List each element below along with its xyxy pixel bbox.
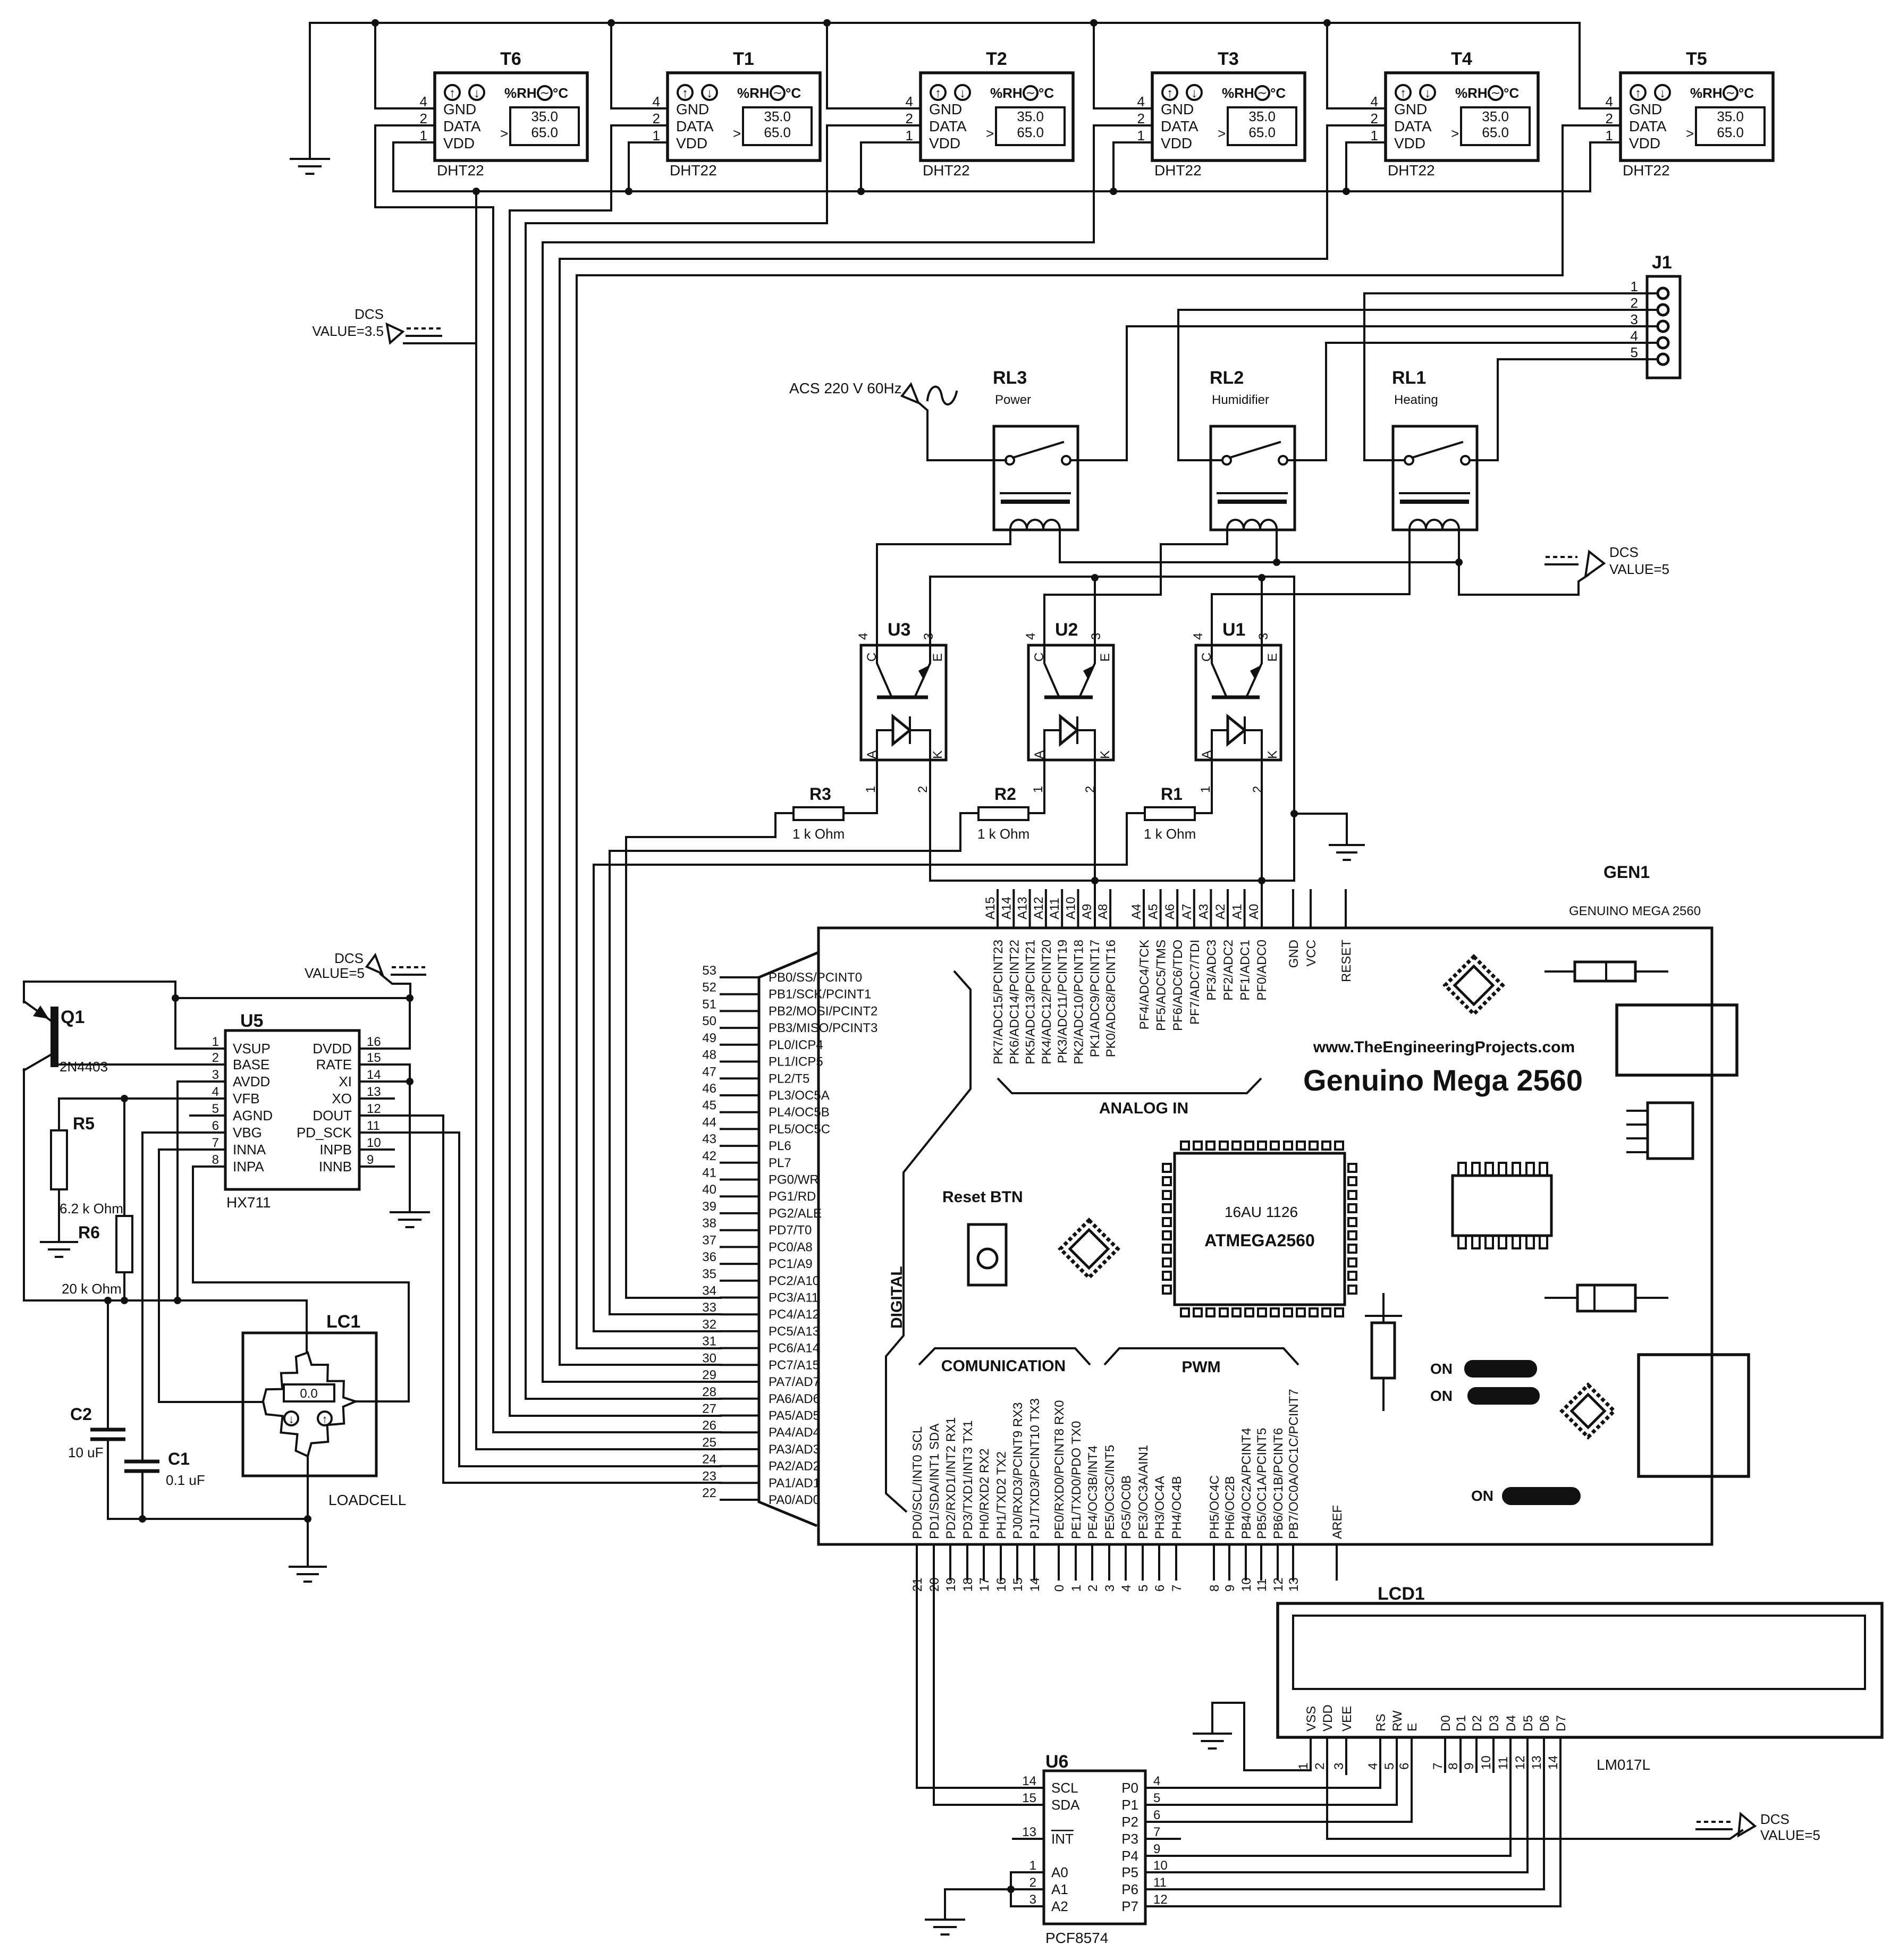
- svg-text:20 k Ohm: 20 k Ohm: [62, 1281, 122, 1297]
- svg-text:U3: U3: [888, 620, 910, 640]
- optocoupler U1: [1191, 620, 1281, 793]
- svg-text:U1: U1: [1222, 620, 1245, 640]
- svg-text:PL7: PL7: [769, 1156, 791, 1170]
- wire T5 VDD: [1590, 142, 1621, 191]
- component capacitor vertical: [1366, 1294, 1401, 1410]
- relay RL3 Power: [993, 368, 1078, 530]
- svg-text:14: 14: [1022, 1774, 1036, 1788]
- svg-text:PK4/ADC12/PCINT20: PK4/ADC12/PCINT20: [1040, 940, 1054, 1065]
- svg-text:37: 37: [702, 1233, 716, 1247]
- svg-text:1: 1: [864, 786, 878, 793]
- svg-text:INPB: INPB: [319, 1142, 352, 1158]
- svg-text:2: 2: [1606, 111, 1613, 126]
- svg-text:0.0: 0.0: [300, 1387, 317, 1401]
- svg-text:°C: °C: [1270, 85, 1286, 101]
- MCU bottom pin names: [910, 1389, 1345, 1539]
- svg-text:2N4403: 2N4403: [60, 1059, 108, 1075]
- svg-text:3: 3: [1631, 311, 1638, 327]
- sensor LC1 LOADCELL bridge: [243, 1312, 406, 1508]
- svg-text:PK3/ADC11/PCINT19: PK3/ADC11/PCINT19: [1056, 940, 1070, 1063]
- svg-text:R1: R1: [1161, 784, 1183, 804]
- svg-text:↑: ↑: [1400, 86, 1406, 100]
- svg-text:Reset BTN: Reset BTN: [942, 1188, 1023, 1206]
- wire T2 DATA: [526, 125, 921, 223]
- svg-text:15: 15: [1022, 1791, 1036, 1805]
- sensor T1 DHT22: [653, 49, 820, 179]
- svg-text:Genuino Mega 2560: Genuino Mega 2560: [1303, 1063, 1583, 1097]
- svg-text:0: 0: [1052, 1585, 1067, 1592]
- svg-text:U2: U2: [1055, 620, 1078, 640]
- wire J1 pin3 to RL3: [1127, 326, 1658, 460]
- svg-text:INNB: INNB: [319, 1159, 352, 1175]
- svg-text:2: 2: [1086, 1585, 1100, 1592]
- svg-text:D1: D1: [1454, 1715, 1468, 1731]
- svg-text:Q1: Q1: [61, 1007, 85, 1027]
- svg-text:PE1/TXD0/PDO TX0: PE1/TXD0/PDO TX0: [1069, 1421, 1084, 1539]
- svg-text:PF1/ADC1: PF1/ADC1: [1238, 940, 1253, 1001]
- svg-text:R3: R3: [809, 784, 831, 804]
- wire LCD D0-D3 stubs: [1445, 1737, 1493, 1772]
- svg-text:25: 25: [702, 1435, 716, 1450]
- wire U6 INT stub: [1013, 1838, 1044, 1840]
- wire R5 leads: [58, 1099, 60, 1242]
- wire T5 GND: [1580, 23, 1621, 108]
- chip SOIC16: [1453, 1163, 1551, 1248]
- svg-text:PG2/ALE: PG2/ALE: [769, 1206, 822, 1221]
- svg-text:Heating: Heating: [1394, 393, 1438, 407]
- svg-text:12: 12: [367, 1102, 381, 1116]
- svg-text:E: E: [1405, 1723, 1420, 1731]
- svg-text:3: 3: [1089, 633, 1103, 640]
- svg-text:∼: ∼: [1026, 86, 1035, 99]
- svg-text:PD0/SCL/INT0 SCL: PD0/SCL/INT0 SCL: [910, 1426, 925, 1539]
- wire LCD D5 to U6 P5: [1145, 1737, 1527, 1872]
- svg-text:ATMEGA2560: ATMEGA2560: [1204, 1231, 1314, 1250]
- svg-text:VALUE=5: VALUE=5: [1760, 1827, 1820, 1843]
- connector J1: [1631, 252, 1680, 378]
- svg-text:PL6: PL6: [769, 1139, 791, 1153]
- svg-text:D7: D7: [1554, 1715, 1568, 1731]
- svg-text:VALUE=3.5: VALUE=3.5: [312, 323, 384, 339]
- svg-text:4: 4: [653, 94, 660, 109]
- svg-text:PF6/ADC6/TDO: PF6/ADC6/TDO: [1171, 940, 1185, 1031]
- svg-text:7: 7: [212, 1136, 219, 1150]
- svg-text:A7: A7: [1180, 904, 1194, 919]
- svg-text:T1: T1: [733, 49, 754, 69]
- svg-text:10: 10: [1479, 1755, 1493, 1770]
- svg-text:2: 2: [906, 111, 913, 126]
- ground U6 address pins: [926, 1920, 964, 1934]
- svg-text:VDD: VDD: [1161, 135, 1192, 151]
- svg-text:PA1/AD1: PA1/AD1: [769, 1476, 820, 1490]
- wire U6 P3 stub: [1145, 1838, 1180, 1840]
- MCU top analog pins A15-A8: [983, 890, 1118, 1065]
- svg-text:65.0: 65.0: [531, 124, 558, 140]
- svg-text:6: 6: [212, 1119, 219, 1133]
- svg-text:PK5/ADC13/PCINT21: PK5/ADC13/PCINT21: [1024, 940, 1038, 1065]
- wire U5 INPB INNB stubs: [359, 1150, 394, 1167]
- wire DATA bundle verticals to MCU: [493, 207, 721, 1432]
- svg-text:PC2/A10: PC2/A10: [769, 1274, 820, 1288]
- svg-text:2: 2: [916, 786, 930, 793]
- svg-text:16AU 1126: 16AU 1126: [1225, 1204, 1298, 1220]
- wire LCD VSS to ground: [1212, 1703, 1311, 1770]
- wire U6 SCL to MCU pin 21: [917, 1544, 1044, 1788]
- svg-text:PA0/AD0: PA0/AD0: [769, 1493, 820, 1507]
- svg-text:PK7/ADC15/PCINT23: PK7/ADC15/PCINT23: [991, 940, 1006, 1065]
- svg-text:R5: R5: [73, 1114, 95, 1133]
- svg-text:35: 35: [702, 1267, 716, 1281]
- power DCS VALUE=3.5 sensor supply: [312, 306, 441, 343]
- wire Q1 emitter: [23, 982, 25, 1002]
- wire T6 GND: [372, 19, 435, 108]
- ground R5: [41, 1242, 77, 1257]
- svg-text:44: 44: [702, 1115, 716, 1129]
- connector power jack right: [1639, 1355, 1749, 1476]
- svg-text:A6: A6: [1163, 904, 1177, 919]
- wire U5 DVDD: [359, 998, 410, 1049]
- transistor Q1 2N4403: [24, 1001, 108, 1075]
- svg-text:65.0: 65.0: [1248, 124, 1276, 140]
- svg-text:3: 3: [922, 633, 936, 640]
- svg-text:A1: A1: [1051, 1881, 1068, 1897]
- wire T4 VDD: [1343, 142, 1386, 195]
- svg-text:A4: A4: [1129, 904, 1144, 919]
- svg-text:2: 2: [1029, 1875, 1036, 1890]
- svg-text:RESET: RESET: [1339, 940, 1354, 982]
- svg-text:PB4/OC2A/PCINT4: PB4/OC2A/PCINT4: [1239, 1428, 1254, 1539]
- wire T1 GND: [607, 19, 668, 108]
- sensor T4 DHT22: [1371, 49, 1538, 179]
- svg-text:GND: GND: [1287, 940, 1301, 968]
- wire emitter bus: [930, 574, 1294, 881]
- svg-text:INPA: INPA: [233, 1159, 264, 1175]
- svg-text:DATA: DATA: [1394, 118, 1432, 134]
- svg-text:GND: GND: [1161, 101, 1194, 117]
- svg-text:GEN1: GEN1: [1603, 863, 1650, 882]
- svg-text:1 k Ohm: 1 k Ohm: [792, 826, 845, 842]
- svg-text:DCS: DCS: [1760, 1811, 1790, 1827]
- svg-text:7: 7: [1153, 1825, 1160, 1839]
- svg-text:4: 4: [1119, 1585, 1134, 1592]
- svg-text:2: 2: [1313, 1763, 1327, 1770]
- svg-text:>: >: [1686, 125, 1694, 141]
- svg-text:PH4/OC4B: PH4/OC4B: [1170, 1476, 1184, 1539]
- svg-text:10: 10: [1239, 1577, 1254, 1592]
- wire LCD D6 to U6 P6: [1145, 1737, 1544, 1889]
- svg-text:PF0/ADC0: PF0/ADC0: [1255, 940, 1269, 1001]
- power DCS VALUE=5 relay supply: [1459, 544, 1669, 595]
- svg-text:6: 6: [1153, 1808, 1160, 1822]
- svg-text:A10: A10: [1064, 897, 1078, 919]
- svg-text:1: 1: [1631, 278, 1638, 294]
- svg-text:PC1/A9: PC1/A9: [769, 1257, 813, 1271]
- svg-text:38: 38: [702, 1216, 716, 1231]
- svg-text:22: 22: [702, 1486, 716, 1500]
- label COMUNICATION bracket: [919, 1348, 1090, 1375]
- svg-text:47: 47: [702, 1065, 716, 1079]
- svg-text:DIGITAL: DIGITAL: [888, 1266, 906, 1329]
- svg-text:11: 11: [367, 1119, 380, 1133]
- wire AC to RL3 contact: [919, 403, 1006, 460]
- svg-text:13: 13: [367, 1085, 381, 1099]
- svg-text:8: 8: [1208, 1585, 1222, 1592]
- svg-text:A11: A11: [1048, 898, 1062, 919]
- wire LCD RW to U6 P1: [1145, 1737, 1397, 1805]
- wire C2 leads: [107, 1300, 109, 1519]
- svg-text:40: 40: [702, 1182, 716, 1197]
- svg-text:4: 4: [1631, 328, 1638, 344]
- svg-text:9: 9: [1462, 1763, 1476, 1770]
- svg-text:P2: P2: [1121, 1814, 1138, 1830]
- svg-text:SDA: SDA: [1051, 1797, 1080, 1813]
- wire U5 VSUP: [175, 998, 225, 1049]
- svg-text:PF5/ADC5/TMS: PF5/ADC5/TMS: [1154, 940, 1169, 1031]
- svg-text:PA6/AD6: PA6/AD6: [769, 1392, 820, 1406]
- wire RL1 coil to U1: [1212, 530, 1410, 645]
- svg-text:2: 2: [1631, 295, 1638, 311]
- svg-text:RL1: RL1: [1392, 368, 1426, 388]
- svg-text:>: >: [500, 125, 508, 141]
- svg-text:PL3/OC5A: PL3/OC5A: [769, 1088, 830, 1103]
- svg-text:E: E: [1098, 653, 1112, 662]
- svg-text:9: 9: [367, 1153, 374, 1167]
- svg-text:%RH: %RH: [1455, 85, 1488, 101]
- svg-text:PB0/SS/PCINT0: PB0/SS/PCINT0: [769, 970, 862, 985]
- power DCS VALUE=5 LCD supply: [1327, 1737, 1820, 1843]
- wire LC1 bottom: [307, 1456, 309, 1519]
- wire T4 DATA: [560, 125, 1386, 259]
- connector USB top right: [1617, 1005, 1737, 1075]
- svg-text:10 uF: 10 uF: [68, 1444, 104, 1460]
- svg-text:11: 11: [1255, 1578, 1269, 1592]
- svg-text:1: 1: [653, 128, 660, 143]
- node VDD sensor rail: [393, 188, 1590, 195]
- power ACS 220V 60Hz source: [789, 380, 957, 404]
- svg-text:A12: A12: [1032, 897, 1046, 919]
- svg-text:AGND: AGND: [233, 1108, 273, 1123]
- wire LCD D7 to U6 P7: [1145, 1737, 1560, 1906]
- svg-text:VDD: VDD: [1629, 135, 1660, 151]
- svg-text:7: 7: [1431, 1763, 1445, 1770]
- capacitor C2 10uF: [68, 1405, 125, 1460]
- svg-text:4: 4: [1371, 94, 1378, 109]
- svg-text:65.0: 65.0: [764, 124, 791, 140]
- svg-text:DATA: DATA: [929, 118, 967, 134]
- svg-text:↓: ↓: [474, 86, 480, 100]
- svg-text:PD7/T0: PD7/T0: [769, 1223, 812, 1238]
- svg-text:4: 4: [1366, 1763, 1380, 1770]
- svg-text:PH1/TXD2 TX2: PH1/TXD2 TX2: [994, 1451, 1009, 1539]
- svg-text:PG1/RD: PG1/RD: [769, 1189, 816, 1204]
- svg-text:%RH: %RH: [990, 85, 1023, 101]
- wire T3 GND: [1090, 19, 1152, 108]
- svg-text:48: 48: [702, 1048, 716, 1062]
- svg-text:T2: T2: [986, 49, 1007, 69]
- svg-text:6: 6: [1153, 1585, 1167, 1592]
- label PWM bracket: [1104, 1348, 1298, 1376]
- svg-text:PK2/ADC10/PCINT18: PK2/ADC10/PCINT18: [1072, 940, 1086, 1065]
- svg-text:16: 16: [994, 1577, 1009, 1592]
- svg-text:28: 28: [702, 1385, 716, 1399]
- svg-text:VBG: VBG: [233, 1125, 262, 1140]
- svg-text:PA3/AD3: PA3/AD3: [769, 1442, 820, 1457]
- ground LCD VSS: [1194, 1734, 1231, 1748]
- svg-text:GND: GND: [443, 101, 476, 117]
- svg-text:PA2/AD2: PA2/AD2: [769, 1459, 820, 1474]
- svg-text:PK6/ADC14/PCINT22: PK6/ADC14/PCINT22: [1007, 940, 1022, 1065]
- MCU top analog pins A4-A0: [1129, 890, 1269, 1031]
- svg-text:DATA: DATA: [443, 118, 481, 134]
- svg-text:T3: T3: [1218, 49, 1239, 69]
- svg-text:LC1: LC1: [326, 1312, 360, 1332]
- svg-text:VDD: VDD: [443, 135, 475, 151]
- svg-text:LCD1: LCD1: [1378, 1584, 1425, 1604]
- wire T2 GND: [823, 19, 921, 108]
- svg-text:5: 5: [1153, 1791, 1160, 1805]
- svg-text:A3: A3: [1196, 904, 1211, 919]
- svg-text:VDD: VDD: [1321, 1704, 1335, 1731]
- ground top-left: [291, 23, 329, 174]
- svg-text:P4: P4: [1121, 1848, 1138, 1864]
- svg-text:XI: XI: [339, 1074, 352, 1089]
- svg-text:COMUNICATION: COMUNICATION: [941, 1357, 1066, 1375]
- wire U5 PD_SCK to MCU: [359, 1133, 721, 1466]
- svg-text:5: 5: [212, 1102, 219, 1116]
- svg-text:DHT22: DHT22: [1388, 162, 1435, 179]
- resistor R6 20k: [62, 1216, 132, 1297]
- wire Q1 collector: [23, 1069, 25, 1300]
- svg-text:39: 39: [702, 1199, 716, 1214]
- wire U5 VFB to R5 R6: [59, 1095, 225, 1102]
- svg-text:10: 10: [1153, 1858, 1168, 1873]
- svg-text:45: 45: [702, 1099, 716, 1113]
- svg-text:GND: GND: [1629, 101, 1662, 117]
- svg-text:PE5/OC3C/INT5: PE5/OC3C/INT5: [1103, 1445, 1117, 1539]
- svg-text:T6: T6: [500, 49, 521, 69]
- wire U5 AVDD: [178, 1082, 225, 1300]
- svg-text:36: 36: [702, 1250, 716, 1264]
- svg-text:30: 30: [702, 1351, 716, 1365]
- resistor R2 1k: [977, 784, 1029, 842]
- svg-text:23: 23: [702, 1469, 716, 1483]
- svg-text:14: 14: [367, 1068, 381, 1082]
- component diode bottom: [1546, 1285, 1667, 1311]
- svg-text:DCS: DCS: [1609, 544, 1639, 560]
- svg-text:PL4/OC5B: PL4/OC5B: [769, 1105, 830, 1120]
- wire U5 INNA to loadcell: [159, 1150, 263, 1402]
- capacitor C1 0.1uF: [124, 1449, 205, 1488]
- svg-text:PK1/ADC9/PCINT17: PK1/ADC9/PCINT17: [1088, 940, 1102, 1057]
- svg-text:P1: P1: [1121, 1797, 1138, 1813]
- svg-text:GND: GND: [1394, 101, 1427, 117]
- svg-text:PH6/OC2B: PH6/OC2B: [1223, 1476, 1237, 1539]
- svg-text:3: 3: [1103, 1585, 1117, 1592]
- svg-text:VALUE=5: VALUE=5: [305, 965, 365, 981]
- svg-text:49: 49: [702, 1031, 716, 1045]
- svg-text:%RH: %RH: [504, 85, 537, 101]
- svg-text:VDD: VDD: [929, 135, 960, 151]
- svg-text:R2: R2: [994, 784, 1016, 804]
- svg-text:1: 1: [1069, 1585, 1084, 1592]
- svg-text:A1: A1: [1230, 904, 1245, 919]
- node AVDD rail: [24, 1297, 307, 1304]
- svg-text:VDD: VDD: [1394, 135, 1425, 151]
- svg-text:%RH: %RH: [737, 85, 770, 101]
- wire LC1 top: [306, 1300, 308, 1353]
- svg-text:1: 1: [212, 1035, 219, 1049]
- svg-text:PE3/OC3A/AIN1: PE3/OC3A/AIN1: [1136, 1445, 1151, 1539]
- svg-text:PC3/A11: PC3/A11: [769, 1291, 818, 1305]
- svg-text:A13: A13: [1016, 897, 1030, 919]
- label ANALOG IN bracket: [998, 1078, 1261, 1117]
- svg-text:PC5/A13: PC5/A13: [769, 1324, 820, 1339]
- svg-text:www.TheEngineeringProjects.com: www.TheEngineeringProjects.com: [1313, 1038, 1575, 1056]
- svg-text:15: 15: [367, 1051, 381, 1065]
- svg-text:PB6/OC1B/PCINT6: PB6/OC1B/PCINT6: [1271, 1428, 1286, 1539]
- svg-text:∼: ∼: [1257, 86, 1267, 99]
- svg-text:PA4/AD4: PA4/AD4: [769, 1425, 820, 1440]
- svg-text:P7: P7: [1121, 1898, 1138, 1914]
- svg-text:%RH: %RH: [1690, 85, 1723, 101]
- svg-text:BASE: BASE: [233, 1057, 269, 1072]
- svg-text:Power: Power: [995, 393, 1031, 407]
- svg-text:↓: ↓: [706, 86, 713, 100]
- svg-text:2: 2: [420, 111, 427, 126]
- svg-text:PF7/ADC7/TDI: PF7/ADC7/TDI: [1188, 940, 1202, 1025]
- svg-text:PF4/ADC4/TCK: PF4/ADC4/TCK: [1137, 940, 1152, 1029]
- svg-text:J1: J1: [1652, 252, 1672, 273]
- svg-text:D5: D5: [1521, 1715, 1535, 1731]
- svg-text:1: 1: [1137, 128, 1145, 143]
- svg-text:DATA: DATA: [676, 118, 714, 134]
- svg-text:35.0: 35.0: [1017, 108, 1044, 124]
- svg-text:DCS: DCS: [334, 950, 364, 966]
- svg-text:12: 12: [1513, 1755, 1527, 1770]
- svg-text:T5: T5: [1686, 49, 1707, 69]
- svg-text:A8: A8: [1096, 904, 1110, 919]
- svg-text:PF2/ADC2: PF2/ADC2: [1221, 940, 1236, 1001]
- svg-text:1 k Ohm: 1 k Ohm: [1144, 826, 1196, 842]
- svg-text:DHT22: DHT22: [1154, 162, 1202, 179]
- svg-text:35.0: 35.0: [1482, 108, 1509, 124]
- svg-text:GENUINO MEGA 2560: GENUINO MEGA 2560: [1569, 904, 1701, 918]
- svg-text:41: 41: [702, 1166, 716, 1180]
- wire U6 A0 A1 A2 to ground: [945, 1872, 1044, 1920]
- svg-text:5: 5: [1382, 1763, 1397, 1770]
- svg-text:4: 4: [212, 1085, 219, 1099]
- MCU top power pins: [1287, 890, 1354, 982]
- wire DCS3.5 to rail and MCU pin 25: [404, 191, 721, 1449]
- svg-text:65.0: 65.0: [1017, 124, 1044, 140]
- svg-text:↓: ↓: [1424, 86, 1431, 100]
- svg-text:∼: ∼: [1726, 86, 1735, 99]
- wire U5 INPA to loadcell: [193, 1167, 409, 1401]
- svg-text:↑: ↑: [682, 86, 688, 100]
- svg-text:PG5/OC0B: PG5/OC0B: [1119, 1475, 1134, 1539]
- svg-text:ACS 220 V 60Hz: ACS 220 V 60Hz: [789, 380, 902, 396]
- display LCD1 LM017L: [1278, 1584, 1882, 1773]
- wire LCD RS to U6 P0: [1145, 1737, 1380, 1788]
- svg-text:P3: P3: [1121, 1831, 1138, 1847]
- svg-text:K: K: [931, 750, 945, 759]
- svg-text:INT: INT: [1051, 1831, 1074, 1847]
- svg-text:GND: GND: [929, 101, 962, 117]
- svg-text:31: 31: [702, 1334, 716, 1349]
- resistor R1 1k: [1144, 784, 1196, 842]
- wire T6 VDD: [393, 142, 435, 191]
- svg-text:VCC: VCC: [1304, 940, 1319, 967]
